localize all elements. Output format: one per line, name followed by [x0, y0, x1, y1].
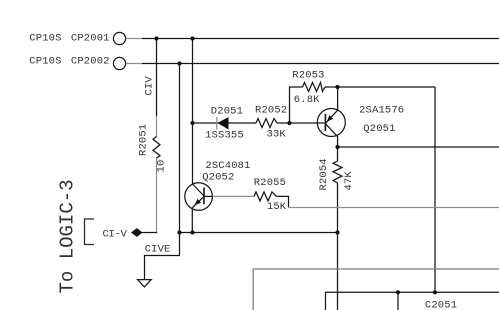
svg-text:R2052: R2052: [255, 105, 287, 117]
svg-text:R2054: R2054: [318, 158, 330, 190]
svg-text:CIVE: CIVE: [145, 244, 171, 256]
svg-text:6.8K: 6.8K: [294, 94, 320, 106]
svg-text:CIV: CIV: [144, 76, 156, 96]
svg-text:CP10S: CP10S: [29, 32, 61, 44]
svg-text:33K: 33K: [267, 129, 287, 141]
svg-text:CI-V: CI-V: [103, 228, 128, 240]
svg-text:D2051: D2051: [211, 106, 243, 118]
svg-text:2SA1576: 2SA1576: [359, 105, 404, 117]
svg-text:R2053: R2053: [292, 69, 324, 81]
svg-text:C2051: C2051: [425, 300, 457, 310]
svg-text:47K: 47K: [343, 171, 355, 191]
svg-text:2SC4081: 2SC4081: [205, 160, 250, 172]
svg-text:Q2051: Q2051: [363, 123, 395, 135]
svg-text:CP2001: CP2001: [71, 32, 110, 44]
svg-text:1SS355: 1SS355: [205, 130, 244, 142]
svg-text:To LOGIC-3: To LOGIC-3: [57, 179, 79, 293]
svg-text:R2051: R2051: [137, 124, 149, 156]
svg-text:Q2052: Q2052: [202, 172, 234, 184]
svg-text:CP2002: CP2002: [71, 55, 110, 67]
svg-text:R2055: R2055: [254, 177, 286, 189]
svg-text:CP10S: CP10S: [29, 55, 61, 67]
svg-text:15K: 15K: [267, 201, 287, 213]
svg-text:10: 10: [155, 160, 167, 173]
